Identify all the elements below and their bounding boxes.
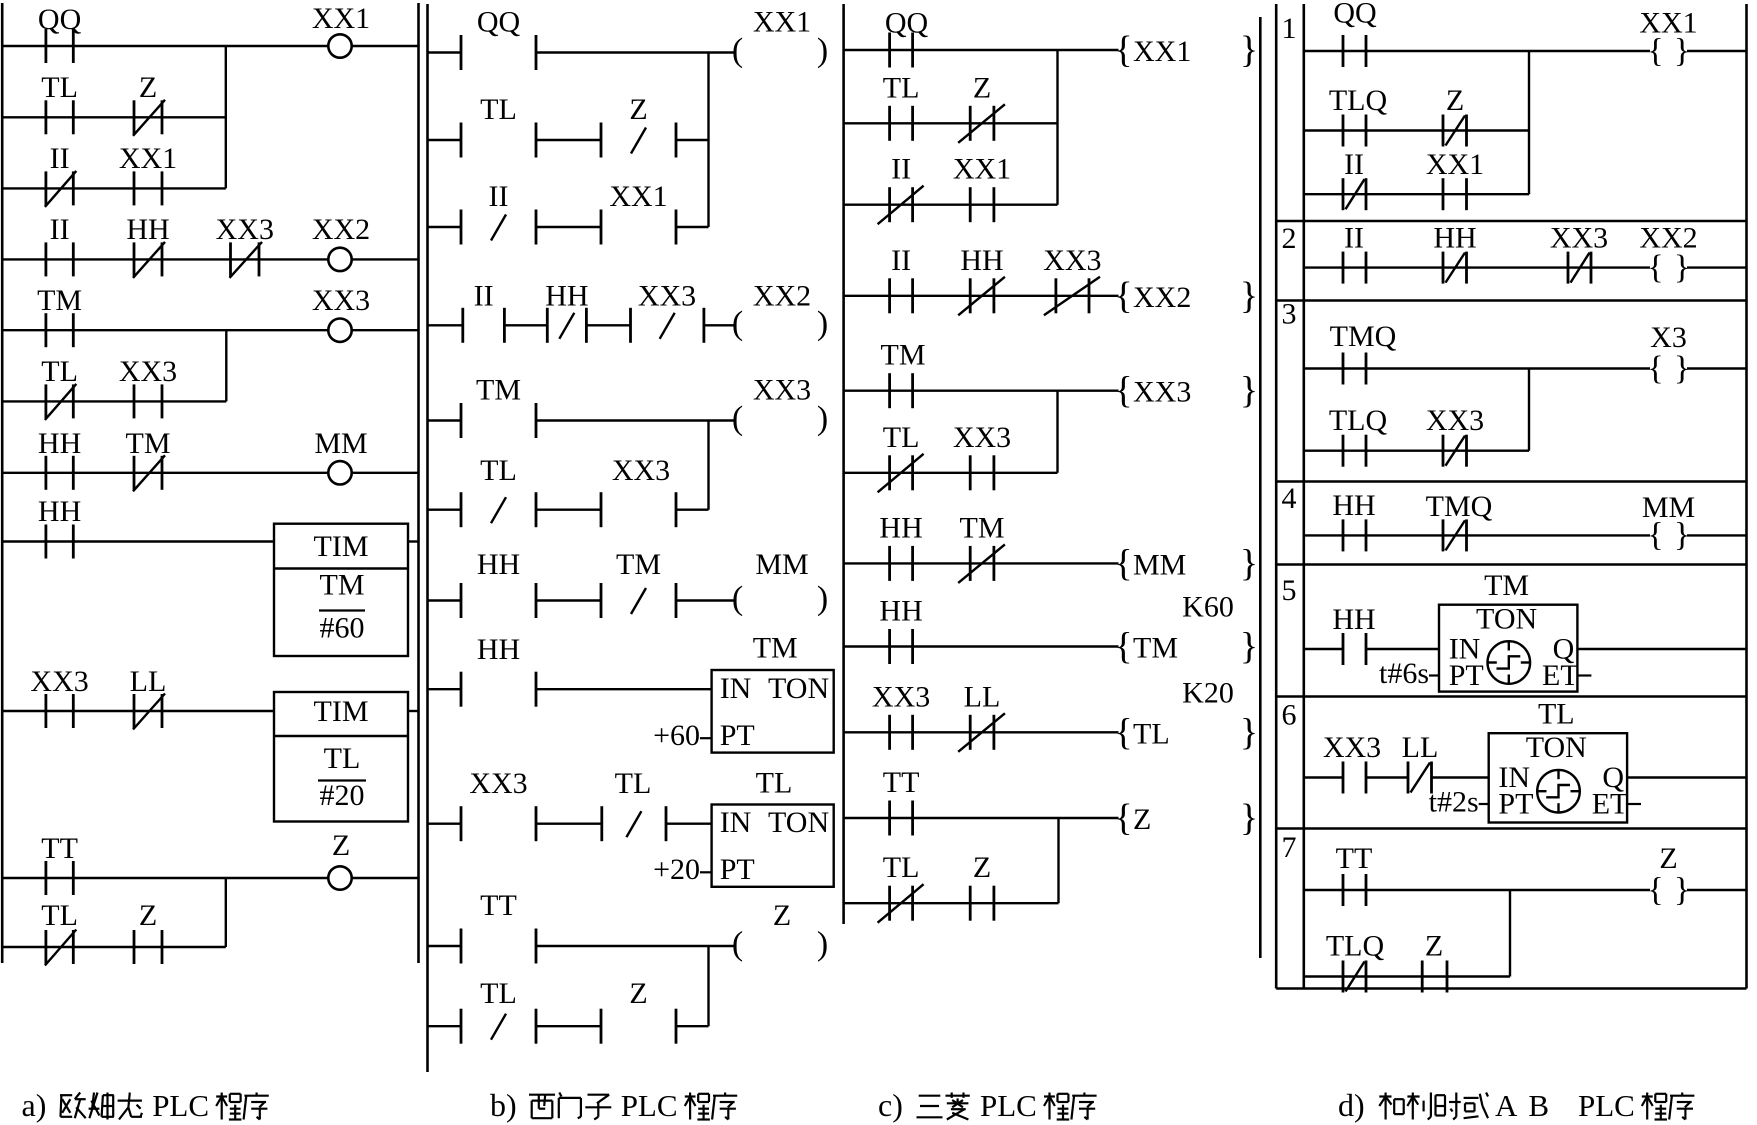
contact HH (NO) rung d5 [1332,603,1375,665]
contact TM (NO) rung a5 [37,284,82,347]
svg-text:PLC: PLC [980,1088,1037,1123]
wire rung b9 to TON box [666,823,712,825]
caption glyph 程 [1044,1093,1069,1120]
svg-text:XX3: XX3 [119,355,177,388]
svg-text:HH: HH [1332,489,1375,522]
contact TM (NC) rung c7 [958,511,1005,583]
wire parallel-branch junction c1-c3 [1056,50,1058,205]
contact XX3 (NC) rung d2 [1550,221,1608,283]
wire rung b11 stub [428,1025,462,1027]
caption glyph 菱 [946,1093,970,1120]
ladder frame divider 2 (d) [1276,299,1746,302]
svg-text:TT: TT [1336,842,1373,875]
wire coil MM to right border [1687,534,1747,536]
svg-text:TM: TM [1133,632,1178,665]
svg-text:II: II [50,213,70,246]
svg-text:{: { [1114,626,1132,668]
wire rung d3 branch [1304,450,1529,452]
wire rung c2 [844,122,1058,124]
svg-text:(: ( [732,926,743,963]
contact XX3 (NO) rung b9 [461,767,536,841]
svg-text:TT: TT [41,832,78,865]
caption b) Siemens PLC program [490,1087,517,1123]
wire rung d7 [1304,889,1650,891]
contact TL (NC) rung b9 [602,767,666,841]
svg-text:b): b) [490,1087,517,1123]
caption c) Mitsubishi PLC program [878,1087,903,1123]
contact TT (NO) rung c10 [883,766,920,836]
contact TL (NC) rung b11 [461,977,536,1044]
left power rail (Siemens ladder b) [426,4,429,1072]
svg-text:XX2: XX2 [312,213,370,246]
svg-text:HH: HH [477,548,520,581]
svg-text:ET: ET [1592,788,1629,821]
svg-text:{: { [1647,249,1663,286]
value K20 timer preset [1182,677,1234,710]
svg-text:): ) [817,32,828,69]
svg-text:(: ( [732,400,743,437]
wire rung d1 branch II [1304,193,1529,195]
wire rung d1 branch TLQ [1304,129,1529,131]
svg-text:LL: LL [130,665,167,698]
svg-text:LL: LL [964,680,1001,713]
wire rung c8 [844,645,1119,647]
value K60 timer preset [1182,591,1234,624]
wire parallel-branch junction a5-a6 [225,330,227,401]
svg-text:): ) [817,305,828,342]
caption glyph 序 [244,1093,269,1120]
contact QQ (NO) rung b1 [461,6,536,71]
svg-text:1: 1 [1282,12,1297,45]
svg-text:XX3: XX3 [216,213,274,246]
contact Z (NC) rung d1 branch [1443,84,1467,147]
contact XX1 (NO) rung a3 [119,142,177,205]
wire rung d6 mid [1366,776,1408,778]
svg-text:Z: Z [629,977,647,1010]
wire rung a1 [2,45,328,47]
wire rung a3 [2,187,226,189]
contact XX3 (NO) rung d6 [1323,731,1381,794]
contact TL (NC) rung a6 [41,355,78,420]
svg-text:a): a) [22,1087,47,1123]
wire coil Z to right border [1687,889,1747,891]
svg-text:XX3: XX3 [612,454,670,487]
svg-text:QQ: QQ [38,3,82,36]
timer function block TON TM (rung d5) [1439,569,1579,692]
value t#2s at PT input [1429,786,1489,819]
contact TT (NO) rung b10 [461,889,536,964]
coil XX1 rung b1 [732,6,828,70]
svg-text:II: II [1344,221,1364,254]
svg-text:{: { [1114,542,1132,584]
svg-text:XX1: XX1 [1426,148,1484,181]
coil XX2 rung a4 [312,213,370,271]
caption glyph 时 [1436,1093,1461,1120]
wire rung b2 stub [428,139,462,141]
wire rung d4 [1304,534,1650,536]
svg-text:XX3: XX3 [30,665,88,698]
contact TT (NO) rung a10 [41,832,78,895]
contact II (NC) rung b3 [461,180,536,245]
timer clock symbol (rung d6) [1537,770,1580,813]
wire rung b9 mid [536,823,601,825]
wire rung d7 branch [1304,975,1510,977]
svg-text:TM: TM [126,427,171,460]
coil MM rung d4 [1642,491,1695,554]
svg-text:PT: PT [720,719,755,752]
svg-text:Z: Z [332,829,350,862]
wire rung a8 [2,540,274,542]
contact HH (NO) rung c7 [879,511,922,581]
wire rung a4 [2,258,329,260]
svg-text:TT: TT [480,889,517,922]
wire rung b8 to TON box [536,688,712,690]
output timer coil TM rung c8 [1114,626,1258,668]
svg-text:XX2: XX2 [753,280,811,313]
svg-text:XX3: XX3 [1133,376,1191,409]
contact HH (NO) rung c8 [879,595,922,665]
wire rung d3 [1304,367,1650,369]
svg-text:TL: TL [480,977,517,1010]
svg-text:Z: Z [629,93,647,126]
rung number 3 [1282,298,1297,331]
wire parallel-branch junction b1-b3 [707,53,709,228]
svg-text:HH: HH [1332,603,1375,636]
wire rung b2 to junction [676,139,709,141]
svg-text:TL: TL [615,767,652,800]
contact TMQ (NC) rung d4 [1426,490,1493,551]
wire ET stub rung d6 [1627,803,1641,805]
wire rung b4 to coil [704,324,735,326]
svg-text:TM: TM [753,631,798,664]
svg-text:PLC: PLC [1578,1088,1635,1123]
wire rung a11 [2,946,226,948]
left power rail (Mitsubishi ladder c) [842,4,845,924]
wire rung a6 [2,400,226,402]
svg-text:QQ: QQ [1333,0,1377,29]
svg-text:}: } [1240,370,1258,412]
svg-text:TM: TM [616,548,661,581]
svg-text:}: } [1240,711,1258,753]
svg-text:HH: HH [1433,221,1476,254]
contact HH (NO) rung a7 [38,427,81,490]
svg-text:HH: HH [545,280,588,313]
svg-text:XX1: XX1 [1133,35,1191,68]
svg-text:TL: TL [480,93,517,126]
contact XX3 (NO) rung a6 [119,355,177,418]
contact II (NO) rung b4 [463,280,505,343]
caption glyph 欧 [60,1093,86,1119]
timer function block TON TL (rung d6) [1489,698,1629,823]
svg-text:XX3: XX3 [469,767,527,800]
wire rung c1 [844,49,1119,51]
coil XX1 rung d1 [1639,7,1697,70]
wire TIM2 output to right rail [408,710,419,712]
caption glyph 利 [1407,1093,1431,1120]
contact QQ (NO) rung c1 [885,7,929,68]
contact TM (NC) rung b7 [601,548,676,618]
wire rung d6 stub [1304,776,1343,778]
svg-text:TL: TL [883,71,920,104]
svg-text:ET: ET [1542,659,1579,692]
svg-text:XX1: XX1 [312,2,370,35]
rung number 1 [1282,12,1297,45]
svg-text:QQ: QQ [477,6,521,39]
svg-text:K60: K60 [1182,591,1234,624]
wire rung b11 mid [536,1025,601,1027]
wire coil XX1 to right rail [351,45,419,47]
caption glyph 程 [216,1093,241,1120]
wire rung d5 stub [1304,648,1343,650]
svg-text:PT: PT [720,853,755,886]
contact QQ (NO) rung d1 [1333,0,1377,67]
wire rung a10 [2,877,329,879]
coil MM rung a7 [314,427,367,484]
svg-text:}: } [1240,29,1258,71]
wire ET stub rung d5 [1577,674,1591,676]
svg-text:d): d) [1338,1087,1365,1123]
rung number 5 [1282,574,1297,607]
timer box TON TM (Siemens) [712,670,834,753]
left power rail (Omron ladder a) [1,3,4,963]
contact TT (NO) rung d7 [1336,842,1373,906]
svg-text:7: 7 [1282,831,1297,864]
svg-text:TON: TON [1526,731,1587,764]
svg-text:QQ: QQ [885,7,929,40]
contact XX1 (NO) rung b3 [601,180,676,245]
wire parallel-branch junction d1 [1528,51,1530,194]
caption glyph 龙 [118,1093,142,1120]
svg-text:{: { [1114,711,1132,753]
svg-text:II: II [891,153,911,186]
svg-text:HH: HH [126,213,169,246]
wire rung d1 [1304,50,1650,52]
wire rung b7 stub [428,599,462,601]
svg-text:6: 6 [1282,699,1297,732]
contact HH (NC) rung b4 [545,280,588,343]
ladder frame divider 5 (d) [1276,695,1746,698]
timer clock symbol (rung d5) [1488,641,1531,684]
svg-text:TL: TL [883,851,920,884]
svg-text:TL: TL [1133,717,1170,750]
contact HH (NO) rung d4 [1332,489,1375,551]
coil XX2 rung d2 [1639,221,1697,286]
contact XX1 (NO) rung d1 branch [1426,148,1484,210]
svg-text:}: } [1240,626,1258,668]
svg-text:TL: TL [756,767,793,800]
contact Z (NO) rung b11 [601,977,676,1044]
rung number 4 [1282,482,1297,515]
wire TON TL Q output to right border [1627,776,1746,778]
svg-text:Z: Z [773,899,791,932]
svg-text:): ) [817,400,828,437]
wire rung b3 to junction [676,226,709,228]
wire rung a9 [2,710,274,712]
svg-text:{: { [1114,370,1132,412]
svg-text:}: } [1240,275,1258,317]
caption glyph 序 [1669,1093,1694,1120]
svg-text:+20: +20 [653,853,700,886]
coil Z rung a10 [328,829,351,890]
wire coil XX1 to right border [1687,50,1747,52]
svg-text:TM: TM [960,511,1005,544]
svg-text:TM: TM [320,568,365,601]
svg-text:II: II [891,244,911,277]
contact HH (NO) rung a8 [38,495,81,559]
svg-text:XX1: XX1 [609,180,667,213]
contact TL (NC) rung b6 [461,454,536,527]
ladder frame divider 4 (d) [1276,563,1746,566]
svg-text:HH: HH [38,495,81,528]
contact TLQ (NC) rung d7 branch [1326,930,1385,993]
svg-text:TLQ: TLQ [1329,404,1388,437]
ladder frame divider 3 (d) [1276,480,1746,483]
contact XX3 (NC) rung d3 branch [1426,404,1484,467]
svg-text:{: { [1114,29,1132,71]
caption glyph 程 [685,1093,710,1120]
contact QQ (NO) rung a1 [38,3,82,63]
contact II (NO) rung c4 [890,244,913,314]
wire rung c5 [844,390,1119,392]
wire coil Z to right rail [351,877,419,879]
caption c PLC text [980,1088,1037,1123]
wire rung a5 [2,329,329,331]
wire rung c3 [844,203,1058,205]
svg-text:XX3: XX3 [1043,244,1101,277]
svg-text:X3: X3 [1650,321,1687,354]
svg-text:{: { [1647,871,1663,908]
svg-text:II: II [489,180,509,213]
svg-text:HH: HH [960,244,1003,277]
svg-text:t#2s: t#2s [1429,786,1479,819]
svg-text:TL: TL [883,421,920,454]
caption glyph 序 [1071,1093,1096,1120]
svg-text:Z: Z [139,899,157,932]
wire parallel-branch junction d7 [1509,890,1511,977]
contact XX3 (NO) rung b6 [601,454,676,527]
timer box TIM TL #20 [274,692,408,822]
contact Z (NO) rung d7 branch [1422,930,1447,993]
caption b PLC text [621,1088,678,1123]
svg-text:{: { [1114,275,1132,317]
contact TL (NC) rung c6 [878,421,924,493]
svg-text:TM: TM [476,374,521,407]
caption glyph 程 [1642,1093,1667,1120]
rung number 6 [1282,699,1297,732]
wire rung b6 stub [428,509,462,511]
contact TL (NO) rung a2 [41,71,78,134]
contact TM (NO) rung b5 [461,374,536,439]
svg-text:4: 4 [1282,482,1297,515]
output coil MM rung c7 [1114,542,1258,584]
contact XX3 (NO) rung c9 [872,680,930,750]
wire parallel-branch junction b5-b6 [707,421,709,510]
svg-text:XX3: XX3 [638,280,696,313]
svg-text:TIM: TIM [314,530,369,563]
wire coil XX3 to right rail [351,329,419,331]
coil XX3 rung a5 [312,284,370,342]
output coil XX2 rung c4 [1114,275,1258,317]
wire parallel-branch junction c5-c6 [1056,391,1058,473]
contact HH (NC) rung a4 [126,213,169,278]
value +20 at PT input [653,853,712,886]
svg-text:TIM: TIM [314,695,369,728]
contact TM (NC) rung a7 [126,427,171,491]
wire rung b9 stub [428,823,462,825]
contact LL (NC) rung a9 [130,665,167,730]
wire rung c10 [844,817,1119,819]
contact II (NC) rung a3 [45,142,76,207]
wire coil X3 to right border [1687,367,1747,369]
wire rung b10 to coil [536,945,735,947]
wire rung b4 seg1 [504,324,547,326]
caption glyph 姆 [89,1093,114,1120]
wire TON TM Q output to right border [1577,648,1746,650]
svg-text:XX1: XX1 [1639,7,1697,40]
svg-text:XX3: XX3 [1426,404,1484,437]
svg-text:Z: Z [973,851,991,884]
svg-text:AB: AB [1495,1088,1560,1123]
wire rung b7 to coil [676,599,735,601]
ladder frame divider 6 (d) [1276,827,1746,830]
coil XX2 rung b4 [732,280,828,342]
contact XX3 (NO) rung a9 [30,665,88,728]
svg-text:): ) [817,580,828,617]
svg-text:PT: PT [1449,659,1484,692]
wire rung a2 [2,116,226,118]
output coil Z rung c10 [1114,797,1258,839]
ladder frame right border (d) [1745,4,1748,989]
svg-text:TL: TL [480,454,517,487]
contact Z (NO) rung a11 [134,899,162,964]
svg-text:XX1: XX1 [753,6,811,39]
timer box TON TL (Siemens) [712,805,834,887]
svg-text:#20: #20 [320,779,365,812]
contact LL (NC) rung d6 [1402,731,1439,794]
rung number 7 [1282,831,1297,864]
contact Z (NC) rung c2 [958,71,1005,143]
svg-text:TM: TM [881,339,926,372]
right power rail (Omron ladder a) [417,3,420,963]
svg-text:LL: LL [1402,731,1439,764]
wire parallel-branch junction d3 [1528,369,1530,451]
caption glyph 子 [585,1095,611,1120]
svg-text:TON: TON [1476,602,1537,635]
wire rung b8 stub [428,688,462,690]
svg-text:TT: TT [883,766,920,799]
caption glyph 或 [1464,1093,1488,1119]
wire parallel-branch junction c10-c11 [1057,818,1059,903]
label TM above TON1 [753,631,798,664]
contact HH (NC) rung c4 [958,244,1005,316]
svg-text:II: II [50,142,70,175]
coil XX3 rung b5 [732,374,828,438]
svg-text:#60: #60 [320,612,365,645]
svg-text:TLQ: TLQ [1326,930,1385,963]
wire coil XX2 to right rail [351,258,419,260]
contact TMQ (NO) rung d3 [1330,320,1397,385]
svg-text:HH: HH [879,595,922,628]
contact Z (NO) rung c11 [970,851,994,921]
contact TL (NC) rung a11 [41,899,78,966]
caption glyph 西 [529,1095,555,1119]
wire rung d2 [1304,266,1650,268]
svg-text:{: { [1647,350,1663,387]
svg-text:c): c) [878,1087,903,1123]
svg-text:TL: TL [41,71,78,104]
svg-text:MM: MM [1133,548,1186,581]
svg-text:Z: Z [973,71,991,104]
